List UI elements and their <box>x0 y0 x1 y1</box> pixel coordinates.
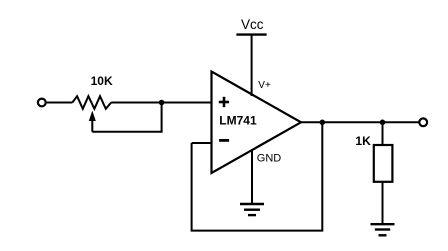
svg-text:1K: 1K <box>355 134 371 148</box>
svg-text:GND: GND <box>257 152 282 164</box>
svg-text:V+: V+ <box>258 80 271 91</box>
svg-text:LM741: LM741 <box>219 113 257 127</box>
svg-text:10K: 10K <box>91 74 113 88</box>
svg-text:Vcc: Vcc <box>241 17 264 32</box>
